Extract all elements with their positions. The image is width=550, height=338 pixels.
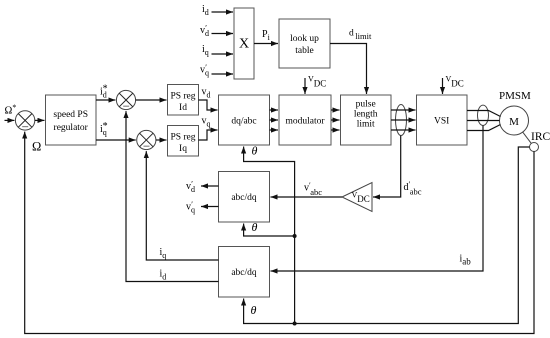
wire: dq/abc to modulator phase a (270, 109, 279, 111)
wire: VSI to motor phase a (467, 111, 501, 117)
block: PS reg Id (168, 85, 199, 116)
svg-text:M: M (509, 116, 519, 128)
svg-text:VSI: VSI (434, 117, 449, 127)
wire: S3 to PS reg Iq (156, 139, 167, 141)
wire: i_d* from regulator to S2 (96, 99, 115, 101)
svg-text:iq*: iq* (100, 121, 108, 137)
wire: i_q* from regulator to S3 (96, 139, 136, 141)
svg-text:length: length (354, 110, 378, 120)
svg-text:abc/dq: abc/dq (231, 193, 257, 203)
wire: S1 to speed regulator (35, 119, 45, 121)
wire: i_q input stub to X (212, 53, 234, 55)
wire: dq/abc to modulator phase c (270, 129, 279, 131)
block: pulse length limit (341, 95, 392, 145)
block: look up table (279, 19, 330, 68)
block: abc/dq voltage (219, 172, 270, 223)
svg-text:abc/dq: abc/dq (231, 268, 257, 278)
wire: omega* input into S1 (5, 119, 15, 121)
svg-text:θ: θ (252, 220, 258, 234)
block: speed PS regulator (46, 95, 97, 145)
svg-text:id*: id* (100, 83, 108, 99)
svg-text:modulator: modulator (285, 117, 325, 127)
block: modulator (279, 95, 331, 145)
wire: d_limit from look up table to pulse length limit (330, 44, 367, 95)
block: VSI (417, 95, 468, 145)
svg-text:PS reg: PS reg (170, 92, 195, 102)
wire: v_q' output of abc/dq voltage (201, 206, 219, 208)
wire: motor shaft to IRC (523, 132, 532, 143)
wire: i_d input stub to X (212, 11, 234, 13)
wire: VSI to motor phase c (467, 125, 501, 131)
wire: VSI to motor phase b (467, 120, 500, 122)
wire: modulator to pulse length limit phase c (331, 129, 340, 131)
wire: dq/abc to modulator phase b (270, 119, 279, 121)
summing junction S1 (15, 111, 34, 130)
wire: d'_abc down to gain triangle (373, 136, 401, 198)
wire: modulator to pulse length limit phase b (331, 119, 340, 121)
svg-text:θ: θ (251, 303, 257, 317)
wire: V_DC into modulator (304, 78, 306, 94)
svg-text:PMSM: PMSM (499, 90, 531, 102)
svg-text:Id: Id (179, 103, 187, 113)
wire: theta riser to dq/abc (244, 147, 295, 324)
svg-text:pulse: pulse (356, 100, 376, 110)
svg-text:dq/abc: dq/abc (231, 117, 256, 127)
svg-text:Iq: Iq (179, 144, 187, 154)
summing junction S2 (116, 90, 135, 109)
wire: v'_abc from triangle to abc/dq voltage (271, 196, 343, 198)
wire: i_ab feedback to abc/dq current (271, 126, 484, 272)
current sensor ellipse E1 (d'_abc tap) (396, 105, 407, 136)
block: dq/abc (219, 95, 270, 145)
wire: modulator to pulse length limit phase a (331, 109, 340, 111)
block: multiplier X (234, 8, 254, 79)
svg-text:X: X (239, 37, 249, 52)
svg-text:regulator: regulator (54, 123, 89, 133)
svg-text:Ω: Ω (32, 140, 41, 154)
wire: pulse length limit to VSI phase a (391, 109, 416, 111)
wire: V_DC into VSI (442, 78, 444, 94)
block: PS reg Iq (168, 126, 199, 157)
wire: v_d' output of abc/dq voltage (201, 185, 219, 187)
wire: theta branch to abc/dq voltage (244, 224, 295, 237)
encoder IRC circle (530, 143, 539, 152)
motor PMSM M (500, 106, 529, 135)
wire: i_q output of abc/dq current to S3 (146, 151, 218, 260)
summing junction S3 (137, 130, 156, 149)
svg-text:limit: limit (357, 120, 375, 130)
wire: S2 to PS reg Id (136, 99, 167, 101)
junction dot theta bottom (293, 322, 297, 326)
svg-text:θ: θ (252, 144, 258, 158)
wire: omega feedback from IRC to S1 (25, 132, 534, 334)
wire: theta feedback from IRC to abc/dq current (244, 147, 530, 324)
wire: P_i from X to look up table (254, 43, 278, 45)
svg-text:speed PS: speed PS (53, 110, 88, 120)
wire: v_d from PS reg Id to dq/abc (199, 100, 218, 110)
block: abc/dq current (219, 247, 270, 298)
junction dot theta branch (293, 234, 297, 238)
current sensor ellipse E2 (i_ab tap) (478, 105, 489, 125)
wire: v_q from PS reg Iq to dq/abc (199, 130, 218, 140)
gain triangle V_DC (342, 183, 372, 212)
svg-text:table: table (295, 46, 313, 56)
wire: pulse length limit to VSI phase c (391, 129, 416, 131)
svg-text:look up: look up (290, 34, 319, 44)
svg-text:PS reg: PS reg (170, 133, 195, 143)
svg-text:IRC: IRC (531, 131, 550, 143)
wire: v_q' input stub to X (212, 73, 234, 75)
wire: pulse length limit to VSI phase b (391, 119, 416, 121)
wire: i_d output of abc/dq current to S2 (126, 111, 219, 281)
wire: v_d' input stub to X (212, 33, 234, 35)
